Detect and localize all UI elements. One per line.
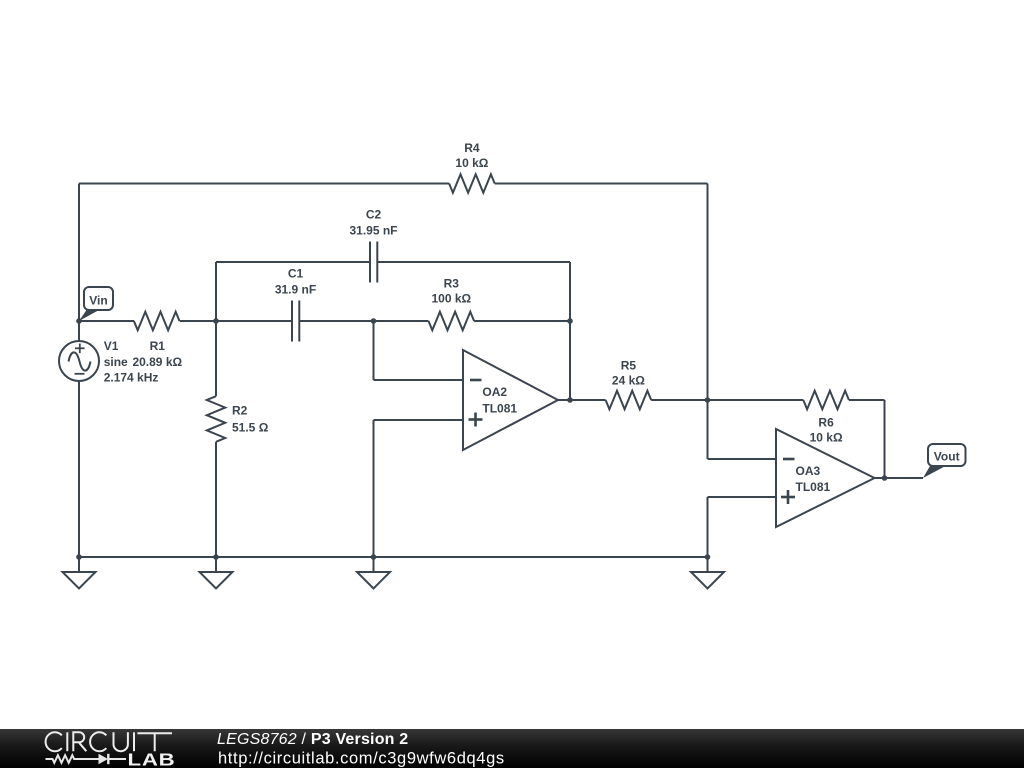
svg-text:V1: V1 bbox=[104, 339, 119, 353]
svg-text:R2: R2 bbox=[232, 404, 248, 418]
svg-text:R4: R4 bbox=[464, 141, 480, 155]
junction node dot 10 bbox=[371, 554, 377, 560]
net flag Vout bbox=[923, 444, 966, 478]
svg-text:TL081: TL081 bbox=[482, 402, 517, 416]
svg-text:LAB: LAB bbox=[128, 751, 176, 768]
wire to OA3 inverting input bbox=[708, 458, 777, 460]
wire C2 branch left horizontal bbox=[216, 261, 370, 263]
wire OA2 non-inverting input horizontal bbox=[374, 419, 464, 421]
circuit title text bbox=[217, 731, 408, 748]
junction node dot 8 bbox=[76, 554, 82, 560]
footer bar bbox=[0, 729, 1024, 768]
junction node dot 2 bbox=[213, 318, 219, 324]
wire OA2 output to R5 bbox=[558, 399, 606, 401]
svg-text:Vout: Vout bbox=[934, 450, 960, 464]
CircuitLab logo wordmark CIRCUIT bbox=[46, 732, 172, 751]
wire top feedback rail left segment bbox=[79, 183, 449, 185]
svg-text:C1: C1 bbox=[288, 267, 304, 281]
resistor R2 51.5 Ohm bbox=[207, 321, 269, 557]
svg-text:TL081: TL081 bbox=[796, 480, 831, 494]
wire R3 to node C bbox=[474, 320, 570, 322]
wire to OA2 inverting input bbox=[374, 379, 464, 381]
wire left rail upper (top rail to V1 top) bbox=[78, 184, 80, 342]
wire C2 branch down to OA2 output node bbox=[569, 262, 571, 400]
op-amp OA3 TL081 bbox=[776, 429, 875, 527]
svg-text:C2: C2 bbox=[366, 208, 382, 222]
svg-text:24 kΩ: 24 kΩ bbox=[612, 374, 645, 388]
wire node D to R6 bbox=[708, 399, 804, 401]
resistor R1 20.89 k&#937; bbox=[132, 312, 182, 369]
resistor R5 24 k&#937; bbox=[606, 359, 652, 410]
op-amp OA2 TL081 bbox=[463, 350, 558, 450]
svg-text:10 kΩ: 10 kΩ bbox=[455, 156, 488, 170]
svg-text:LEGS8762 / P3 Version 2: LEGS8762 / P3 Version 2 bbox=[217, 731, 408, 748]
resistor R6 10 k&#937; bbox=[803, 391, 849, 445]
ground symbol 2 bbox=[200, 557, 233, 589]
wire ground rail bbox=[79, 556, 708, 558]
junction node dot 3 bbox=[371, 318, 377, 324]
wire R5 to feedback node D bbox=[651, 399, 707, 401]
svg-text:R5: R5 bbox=[621, 359, 637, 373]
capacitor C1 31.9 nF bbox=[275, 267, 316, 342]
wire node A up to C2 branch bbox=[215, 262, 217, 321]
svg-text:Vin: Vin bbox=[89, 294, 107, 308]
circuit url text bbox=[218, 750, 505, 768]
junction node dot 6 bbox=[705, 397, 711, 403]
wire R6 to corner above OA3 output bbox=[849, 399, 885, 401]
wire OA3 non-inverting input down to ground bbox=[707, 497, 709, 557]
net flag Vin bbox=[79, 287, 113, 321]
svg-text:OA3: OA3 bbox=[796, 464, 821, 478]
svg-text:20.89 kΩ: 20.89 kΩ bbox=[132, 355, 182, 369]
wire R6 feedback down to OA3 output bbox=[884, 400, 886, 478]
svg-text:2.174 kHz: 2.174 kHz bbox=[104, 371, 159, 385]
wire node D down to OA3 inverting input bbox=[707, 400, 709, 459]
CircuitLab logo LAB text bbox=[128, 751, 176, 768]
ground symbol 1 bbox=[63, 557, 96, 589]
svg-text:10 kΩ: 10 kΩ bbox=[810, 431, 843, 445]
wire OA3 non-inverting input horizontal bbox=[708, 496, 777, 498]
wire Vin node to R1 bbox=[79, 320, 134, 322]
ground symbol 4 bbox=[691, 557, 724, 589]
wire OA2 non-inverting input down to ground rail bbox=[373, 420, 375, 557]
junction node dot 5 bbox=[567, 397, 573, 403]
resistor R3 100 k&#937; bbox=[429, 277, 475, 331]
wire OA3 output to Vout bbox=[875, 477, 924, 479]
svg-text:http://circuitlab.com/c3g9wfw6: http://circuitlab.com/c3g9wfw6dq4gs bbox=[218, 750, 505, 768]
wire C2 branch right horizontal bbox=[377, 261, 570, 263]
svg-text:sine: sine bbox=[104, 355, 128, 369]
svg-text:OA2: OA2 bbox=[482, 385, 507, 399]
wire node B down to OA2 inverting input bbox=[373, 321, 375, 380]
junction node dot 9 bbox=[213, 554, 219, 560]
CircuitLab logo resistor-diode symbol bbox=[46, 754, 127, 764]
wire C1 right plate to node B bbox=[299, 320, 428, 322]
svg-text:R3: R3 bbox=[444, 277, 460, 291]
wire node A to C1 left plate bbox=[216, 320, 292, 322]
wire left rail lower (V1 bottom to ground rail) bbox=[78, 381, 80, 557]
svg-text:31.9 nF: 31.9 nF bbox=[275, 283, 316, 297]
wire right feedback vertical (top rail down to R5 node) bbox=[707, 184, 709, 401]
svg-text:R1: R1 bbox=[150, 339, 166, 353]
junction node dot 1 bbox=[76, 318, 82, 324]
junction node dot 4 bbox=[567, 318, 573, 324]
capacitor C2 31.95 nF bbox=[349, 208, 397, 283]
resistor R4 10 k&#937; bbox=[449, 141, 495, 193]
wire top feedback rail right segment bbox=[495, 183, 708, 185]
svg-text:31.95 nF: 31.95 nF bbox=[349, 224, 397, 238]
junction node dot 11 bbox=[705, 554, 711, 560]
ground symbol 3 bbox=[357, 557, 390, 589]
svg-text:100 kΩ: 100 kΩ bbox=[431, 292, 471, 306]
wire R1 to node A bbox=[180, 320, 216, 322]
junction node dot 7 bbox=[882, 475, 888, 481]
svg-text:51.5 Ω: 51.5 Ω bbox=[232, 421, 269, 435]
voltage source V1 sine 2.174 kHz bbox=[59, 339, 158, 385]
svg-text:R6: R6 bbox=[818, 416, 834, 430]
